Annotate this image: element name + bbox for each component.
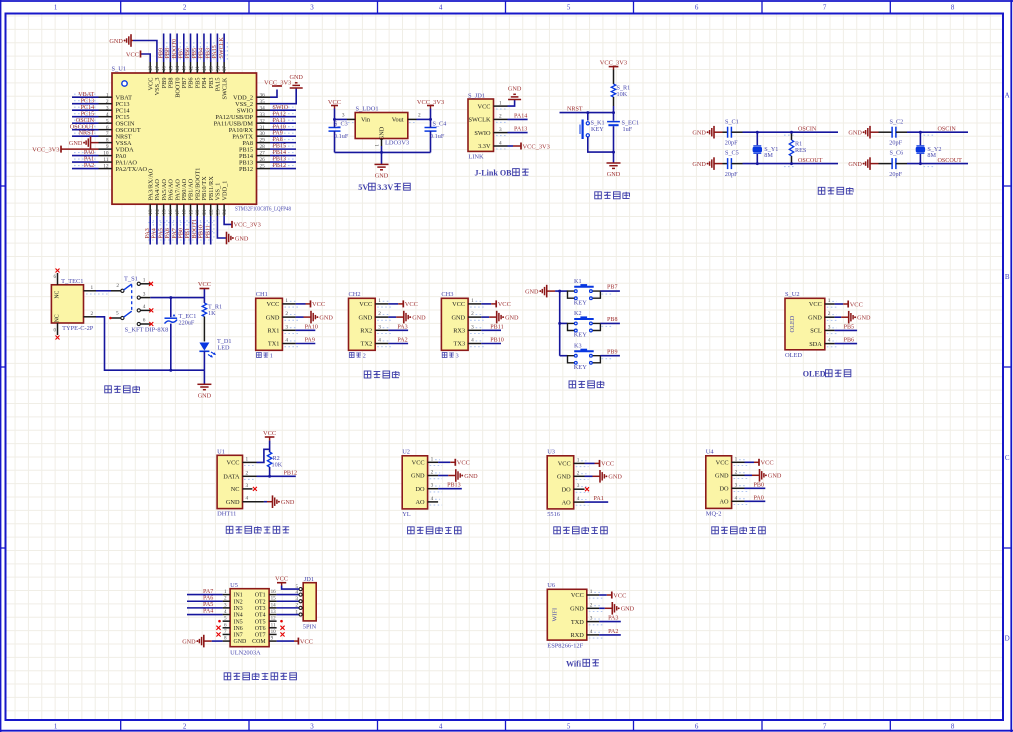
svg-text:S_C2: S_C2 [890,118,904,125]
svg-text:T_TEC1: T_TEC1 [61,278,83,285]
svg-text:GND: GND [525,288,539,295]
svg-text:VCC: VCC [613,592,626,599]
resistor S_R1 10K [611,84,630,98]
J-Link pin 1 VCC to GND flag [478,86,522,111]
svg-text:DO: DO [415,486,425,493]
svg-text:GND: GND [226,499,240,506]
svg-text:OSCOUT: OSCOUT [938,158,963,164]
svg-text:2: 2 [431,470,434,476]
CH3 pin 3 RX3 net PB11 [453,324,503,334]
svg-text:PB7: PB7 [607,285,618,291]
svg-text:S_C3: S_C3 [334,121,348,128]
svg-text:20pF: 20pF [889,139,902,146]
LDO pin 2 stub [408,113,421,123]
svg-text:5V: 5V [358,183,368,192]
title OLED display [803,370,851,379]
capacitor S_EC1 1uF [607,113,639,163]
JD1 pin 1 circle [296,609,303,616]
MCU pin 9 VDDA VCC_3V3 [32,144,134,153]
svg-text:PB15: PB15 [273,144,287,150]
svg-text:GND: GND [848,161,862,168]
MCU pin 34 SWIO net label SWIO [237,105,296,115]
svg-text:IN6: IN6 [234,626,243,632]
U5 pin 4 IN4 net PA4 [187,609,230,615]
capacitor T_EC1 220uF polarized [165,298,197,372]
svg-text:RES: RES [795,147,807,154]
svg-text:PA1: PA1 [594,496,604,502]
U2 pin 1 VCC to VCC [412,456,470,466]
svg-text:GND: GND [570,606,584,613]
svg-text:29: 29 [260,138,266,144]
svg-text:0.1uF: 0.1uF [334,133,349,140]
svg-text:VCC_3V3: VCC_3V3 [264,79,291,86]
svg-text:PA12: PA12 [273,111,286,117]
module U6 ESP8266-12F body [547,582,587,649]
svg-text:NRST: NRST [567,107,583,113]
U5 pin 16 OT1 wire to JD1 [269,589,299,595]
svg-text:RX2: RX2 [360,328,372,335]
svg-text:6: 6 [106,125,109,131]
svg-text:SWCLK: SWCLK [468,117,490,124]
svg-text:WIFI: WIFI [551,608,558,622]
svg-text:VCC: VCC [263,430,276,437]
svg-text:K2: K2 [574,310,582,317]
svg-text:PC13: PC13 [81,98,95,104]
MCU pin 16 PA6/AO wire down / net label PA6 [165,179,175,245]
MCU pin 6 OSCOUT wire / net label OSCOUT [70,124,141,134]
svg-text:3: 3 [456,353,459,360]
module U3 5516 body [547,449,574,518]
svg-text:21: 21 [202,209,208,215]
svg-text:3.3V: 3.3V [478,143,491,150]
MCU pin 33 PA12/USB/DP net label PA12 [215,111,296,121]
svg-text:KEY: KEY [574,364,588,371]
capacitor S_C4 [425,119,447,152]
U5 pin 9 COM to VCC [269,636,313,646]
svg-text:S_C4: S_C4 [433,121,447,128]
svg-text:42: 42 [188,66,194,72]
svg-text:OT1: OT1 [255,593,266,599]
svg-text:TX2: TX2 [361,341,373,348]
svg-text:D: D [1005,635,1010,643]
svg-text:2: 2 [116,283,119,289]
svg-text:1: 1 [91,285,94,291]
svg-text:4: 4 [577,496,580,502]
svg-text:3: 3 [471,324,474,330]
MCU pin 2 PC13 wire / net label PC13 [72,98,130,108]
U5 pin 12 OT5 no-connect [269,616,283,623]
svg-text:GND: GND [451,314,465,321]
svg-text:SWIO: SWIO [273,105,289,111]
MCU pin 22 PB11/RX wire down / net label PB11 [205,176,215,245]
svg-text:VCC: VCC [478,103,491,110]
svg-text:S_KFT DIP-8X8: S_KFT DIP-8X8 [125,327,169,334]
svg-text:PB5: PB5 [844,324,855,330]
svg-text:16: 16 [271,589,277,595]
svg-text:PA3: PA3 [608,616,618,622]
svg-text:PA4: PA4 [152,228,158,238]
CH1 pin 2 GND to GND [266,311,334,324]
svg-text:48: 48 [148,66,154,72]
svg-text:PA9: PA9 [305,338,315,344]
MCU pin 47 VSS_3 ground [109,34,161,95]
CH3 pin 4 TX3 net PB10 [454,338,504,348]
svg-text:8: 8 [106,138,109,144]
svg-text:PB1: PB1 [185,228,191,239]
svg-text:VCC: VCC [850,301,863,308]
svg-text:3: 3 [285,324,288,330]
svg-text:VCC_3V3: VCC_3V3 [523,143,550,150]
svg-text:1: 1 [285,298,288,304]
title light detect module [554,527,608,534]
svg-text:13: 13 [271,609,277,615]
svg-text:GND: GND [692,161,706,168]
JD1 pin 2 circle [296,603,303,610]
ground key circuit [525,285,555,298]
svg-text:PA2/TX/AO: PA2/TX/AO [116,166,148,173]
svg-text:4: 4 [285,338,288,344]
svg-text:OT7: OT7 [255,633,266,639]
svg-text:5: 5 [567,4,571,12]
svg-text:OT6: OT6 [255,626,266,632]
svg-text:C: C [1005,454,1010,462]
svg-text:4: 4 [828,338,831,344]
MCU pin 40 PB4 wire up / net label [199,34,209,89]
svg-text:4: 4 [143,304,146,310]
svg-text:OT3: OT3 [255,606,266,612]
svg-text:24: 24 [222,209,228,215]
svg-text:TYPE-C-2P: TYPE-C-2P [62,325,94,332]
pushbutton K1 KEY net PB7 [560,278,620,307]
pushbutton K3 KEY net PB9 [560,342,620,371]
svg-text:3: 3 [310,4,314,12]
U5 pin 15 OT2 wire to JD1 [269,596,299,602]
LDO pin 3 stub [342,113,355,123]
svg-text:PB13: PB13 [447,483,461,489]
svg-text:S_U1: S_U1 [112,66,127,73]
MCU pin 17 PA7/AO wire down / net label PA7 [172,179,182,245]
svg-text:KEY: KEY [574,332,588,339]
svg-text:PA6: PA6 [203,595,213,601]
svg-text:GND: GND [281,499,295,506]
JD1 pin 5 circle [296,584,303,591]
svg-text:RXD: RXD [571,632,585,639]
svg-text:PA5: PA5 [203,602,213,608]
svg-text:GND: GND [857,315,871,322]
svg-text:U6: U6 [547,582,555,589]
U3 pin 2 GND to GND [557,470,622,483]
svg-text:COM: COM [252,639,266,645]
svg-text:GND: GND [692,130,706,137]
ground S_C5 [692,157,727,170]
svg-text:GND: GND [182,638,196,645]
svg-text:S_LDO1: S_LDO1 [356,106,379,113]
svg-text:PB9: PB9 [158,48,164,59]
svg-text:2: 2 [378,311,381,317]
svg-text:SWCLK: SWCLK [221,77,228,99]
svg-text:S_C1: S_C1 [725,118,739,125]
U4 pin 2 GND to GND [715,469,782,482]
svg-text:S_U2: S_U2 [785,291,800,298]
MCU pin 13 PA3/RX/AO wire down / net label PA3 [145,168,155,244]
module CH2 body [349,291,376,359]
svg-text:TXD: TXD [571,619,584,626]
svg-text:PA15: PA15 [212,45,218,58]
svg-text:PB12: PB12 [239,166,253,173]
svg-text:3: 3 [431,483,434,489]
svg-text:DO: DO [562,486,572,493]
svg-text:OSCOUT: OSCOUT [70,124,95,130]
capacitor S_C3 [329,119,349,152]
resistor T_R1 1K [202,298,222,342]
TYPE-C pin 2 GND wire [84,311,205,370]
title smoke detect module [712,527,766,534]
CH2 pin 4 TX2 net PA2 [361,338,408,348]
svg-text:VCC: VCC [558,461,571,468]
svg-text:2: 2 [577,470,580,476]
svg-text:10K: 10K [272,462,283,469]
svg-text:GND: GND [464,473,478,480]
svg-text:NC: NC [55,314,61,322]
svg-text:45: 45 [168,66,174,72]
svg-text:GND: GND [715,473,729,480]
svg-text:BOOT1: BOOT1 [192,219,198,239]
svg-text:PB3: PB3 [205,48,211,59]
ground S_C2 [848,126,892,139]
svg-text:1K: 1K [208,310,216,317]
S_U2 pin 2 GND to GND [808,311,871,324]
svg-text:NC: NC [231,486,240,493]
ground S_C1 [692,126,727,139]
CH1 pin 3 RX1 net PA10 [267,324,317,334]
svg-text:VCC: VCC [126,51,139,58]
svg-text:3: 3 [143,291,146,297]
svg-text:38: 38 [215,66,221,72]
svg-text:VCC_3V3: VCC_3V3 [234,222,261,229]
module CH3 body [441,291,468,359]
MCU pin 48 VCC power [126,51,155,91]
svg-text:PB14: PB14 [273,150,287,156]
svg-text:PB5: PB5 [192,48,198,59]
MCU pin 39 PB3 wire up / net label [205,34,215,89]
S_U2 pin 4 SDA net PB6 [809,338,857,348]
LDO regulator U=S_LDO1 body [355,106,409,147]
svg-text:GND: GND [848,130,862,137]
CH2 pin 3 RX2 net PA3 [360,324,408,334]
JD1 pin 3 circle [296,596,303,603]
svg-text:47: 47 [155,66,161,72]
svg-text:VCC: VCC [198,281,211,288]
U2 pin 4 AO unconnected [415,496,442,506]
svg-text:GND: GND [505,314,519,321]
U5 pin 14 OT3 wire to JD1 [269,602,299,608]
svg-text:IN5: IN5 [234,619,243,625]
svg-text:1uF: 1uF [623,126,633,133]
svg-text:3: 3 [577,483,580,489]
svg-text:PB11: PB11 [490,324,503,330]
svg-text:K1: K1 [574,278,582,285]
title key circuit [569,381,604,388]
S_U2 pin 3 SCL net PB5 [810,324,857,334]
U3 pin 3 DO no-connect [562,483,589,493]
svg-text:5516: 5516 [547,511,560,518]
svg-text:PB8: PB8 [607,317,618,323]
svg-text:VBAT: VBAT [78,92,94,98]
title J-Link OB [475,169,529,178]
svg-text:30: 30 [260,131,266,137]
svg-text:PA3: PA3 [397,324,407,330]
net label NRST wire [560,107,616,115]
svg-text:ESP8266-12F: ESP8266-12F [547,642,583,649]
svg-text:15: 15 [162,209,168,215]
svg-text:9: 9 [271,636,274,642]
svg-text:PA11: PA11 [273,118,286,124]
svg-text:1: 1 [499,100,502,106]
title stepper motor [224,673,296,680]
svg-text:GND: GND [808,314,822,321]
connector S_JD1 body [468,92,494,160]
MCU pin 20 PB2/BOOT1 wire down / net label BOOT1 [192,168,202,245]
svg-text:2: 2 [91,311,94,317]
svg-text:PA14: PA14 [514,113,527,119]
svg-text:PA1: PA1 [84,157,94,163]
svg-text:KEY: KEY [591,126,604,133]
svg-text:U3: U3 [547,449,555,456]
title power circuit [105,386,140,393]
svg-text:4: 4 [735,495,738,501]
svg-text:2: 2 [471,311,474,317]
svg-text:T_S1: T_S1 [124,275,138,282]
svg-text:20: 20 [195,209,201,215]
resistor R2 10K pull-up [267,441,282,477]
svg-text:A: A [1005,92,1010,100]
svg-text:OT4: OT4 [255,613,266,619]
svg-text:6: 6 [695,723,699,731]
MCU U1 STM32F103C8T6_LQFP48 body [112,66,292,213]
svg-text:PA4: PA4 [203,609,213,615]
MCU pin 37 SWCLK wire up / net label [219,34,229,100]
svg-text:220uF: 220uF [179,320,195,327]
svg-text:IN3: IN3 [234,606,243,612]
svg-text:3.3V: 3.3V [377,183,393,192]
svg-text:3: 3 [828,324,831,330]
push button S_K1 KEY [580,113,614,153]
svg-text:4: 4 [590,629,593,635]
svg-text:2: 2 [183,4,187,12]
svg-text:4: 4 [439,723,443,731]
svg-text:1: 1 [246,456,249,462]
U5 pin 10 OT7 no-connect [269,629,285,637]
svg-text:GND: GND [621,606,635,613]
svg-text:GND: GND [508,86,522,93]
resistor R1 RES feedback [789,131,807,165]
svg-text:17: 17 [175,209,181,215]
capacitor S_C6 20pF [889,150,903,178]
MCU pin 38 PA15 wire up / net label [212,34,222,92]
title wifi module [566,659,599,668]
svg-text:3: 3 [499,127,502,133]
svg-text:GND: GND [198,393,212,400]
svg-text:S_C5: S_C5 [725,150,739,157]
title reset circuit [595,192,630,199]
svg-text:CH3: CH3 [441,291,453,298]
svg-text:GND: GND [109,38,123,45]
svg-text:VCC: VCC [405,301,418,308]
svg-text:DATA: DATA [223,474,240,481]
U5 pin 8 GND [182,635,230,648]
svg-text:2: 2 [828,311,831,317]
ground GND LDO [375,164,389,179]
title crystal circuit [818,187,853,194]
svg-text:PB12: PB12 [273,163,287,169]
module U1 DHT11 body [217,449,242,518]
svg-text:43: 43 [182,66,188,72]
svg-text:PB6: PB6 [185,48,191,59]
svg-text:PA9: PA9 [273,131,283,137]
U4 pin 4 AO net PA0 [719,495,765,505]
node junction C3/Vin [333,118,347,121]
svg-text:OLED: OLED [789,315,796,332]
svg-text:PB10: PB10 [199,225,205,239]
svg-text:JD1: JD1 [304,576,314,583]
svg-text:1: 1 [577,457,580,463]
svg-text:OLED: OLED [803,370,826,379]
svg-text:PB4: PB4 [199,48,205,59]
J-Link pin 4 3.3V to VCC_3V3 [478,140,550,150]
svg-text:VCC: VCC [498,301,511,308]
svg-text:U1: U1 [217,449,225,456]
svg-text:2: 2 [499,114,502,120]
capacitor S_C2 20pF [889,118,903,146]
svg-text:39: 39 [209,66,215,72]
svg-text:4: 4 [246,496,249,502]
svg-text:OSCIN: OSCIN [798,126,817,132]
MCU pin 8 VSSA ground [69,136,132,149]
svg-text:33: 33 [260,112,266,118]
module CH1 body [256,291,283,359]
U6 pin 1 VCC to VCC [571,589,627,599]
svg-text:14: 14 [155,209,161,215]
svg-text:6: 6 [695,4,699,12]
MCU pin 23 VSS_1 to GND [215,183,249,245]
svg-text:8: 8 [951,723,955,731]
svg-text:4: 4 [439,4,443,12]
TYPE-C pin 1 VCC wire to switch [84,285,112,294]
svg-text:PA3: PA3 [145,228,151,238]
crystal S_Y2 8M [916,132,941,163]
wire VCC_3V3 to R1 [613,70,615,85]
svg-text:OLED: OLED [785,352,802,359]
svg-text:PB0: PB0 [754,482,765,488]
svg-text:OT5: OT5 [255,619,266,625]
svg-text:NRST: NRST [79,131,95,137]
svg-text:ULN2003A: ULN2003A [230,649,261,656]
svg-text:VCC_3V3: VCC_3V3 [600,59,627,66]
svg-text:1: 1 [375,144,381,147]
svg-text:1: 1 [143,278,146,284]
svg-text:RX1: RX1 [267,328,279,335]
svg-text:44: 44 [175,66,181,72]
CH1 pin 4 TX1 net PA9 [268,338,315,348]
svg-text:20pF: 20pF [725,139,738,146]
svg-text:STM32F103C8T6_LQFP48: STM32F103C8T6_LQFP48 [235,206,291,213]
svg-text:3: 3 [342,113,345,119]
svg-text:NC: NC [55,290,61,298]
MCU pin 18 PB0/AO wire down / net label PB0 [179,178,189,244]
svg-text:1: 1 [471,298,474,304]
svg-text:1: 1 [270,353,273,360]
svg-text:12: 12 [103,164,109,170]
